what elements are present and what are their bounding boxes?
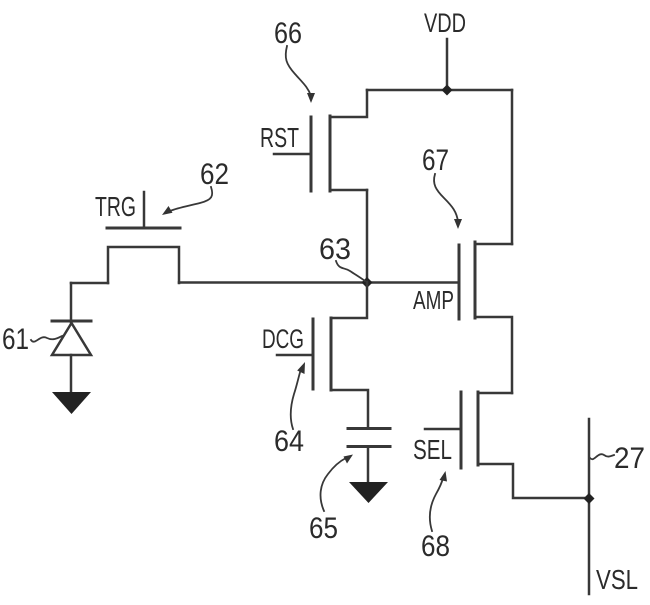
svg-text:RST: RST <box>260 122 299 153</box>
wire node 63 horizontal <box>179 281 459 284</box>
capacitor 65 <box>348 429 390 483</box>
ground arrow under photodiode <box>52 392 91 414</box>
junction dot at VDD node <box>442 85 453 96</box>
wire vertical signal line VSL <box>588 419 591 594</box>
svg-text:27: 27 <box>614 442 645 475</box>
svg-text:61: 61 <box>2 323 29 356</box>
wire VDD stem <box>446 39 449 90</box>
wire top rail <box>367 89 512 92</box>
svg-text:65: 65 <box>309 512 338 545</box>
svg-text:SEL: SEL <box>413 434 452 465</box>
leader squiggle for 63 <box>336 261 365 281</box>
svg-text:VSL: VSL <box>596 564 638 595</box>
svg-text:67: 67 <box>422 144 449 177</box>
svg-text:AMP: AMP <box>413 285 454 315</box>
leader arrow for 65 <box>321 455 353 512</box>
transistor DCG M64 <box>277 282 368 428</box>
transistor AMP M67 <box>459 242 512 393</box>
photodiode 61 <box>52 321 91 392</box>
ground arrow under capacitor <box>349 482 388 503</box>
leader squiggle for 61 <box>31 336 62 342</box>
junction dot VSL node <box>584 493 595 504</box>
svg-text:66: 66 <box>274 17 302 50</box>
svg-text:63: 63 <box>319 233 351 266</box>
leader arrow for 67 <box>434 174 462 229</box>
transfer gate TRG 62 <box>71 192 180 283</box>
leader arrow for 62 <box>162 187 212 215</box>
svg-text:TRG: TRG <box>95 191 136 222</box>
svg-text:DCG: DCG <box>262 324 304 354</box>
transistor SEL M68 <box>425 392 589 498</box>
svg-text:62: 62 <box>200 158 229 191</box>
svg-text:64: 64 <box>274 425 304 458</box>
wire photodiode anode stem <box>70 283 73 322</box>
svg-text:VDD: VDD <box>424 8 466 38</box>
leader arrow for 68 <box>430 471 447 531</box>
leader arrow for 66 <box>286 46 315 103</box>
junction dot node 63 <box>362 277 373 288</box>
svg-text:68: 68 <box>421 530 450 563</box>
leader tilde for 27 <box>590 454 614 459</box>
wire right vertical VDD to AMP drain <box>511 90 514 244</box>
wire RST source down to node 63 <box>366 190 369 282</box>
leader arrow for 64 <box>291 362 305 429</box>
transistor RST M66 <box>274 90 367 191</box>
